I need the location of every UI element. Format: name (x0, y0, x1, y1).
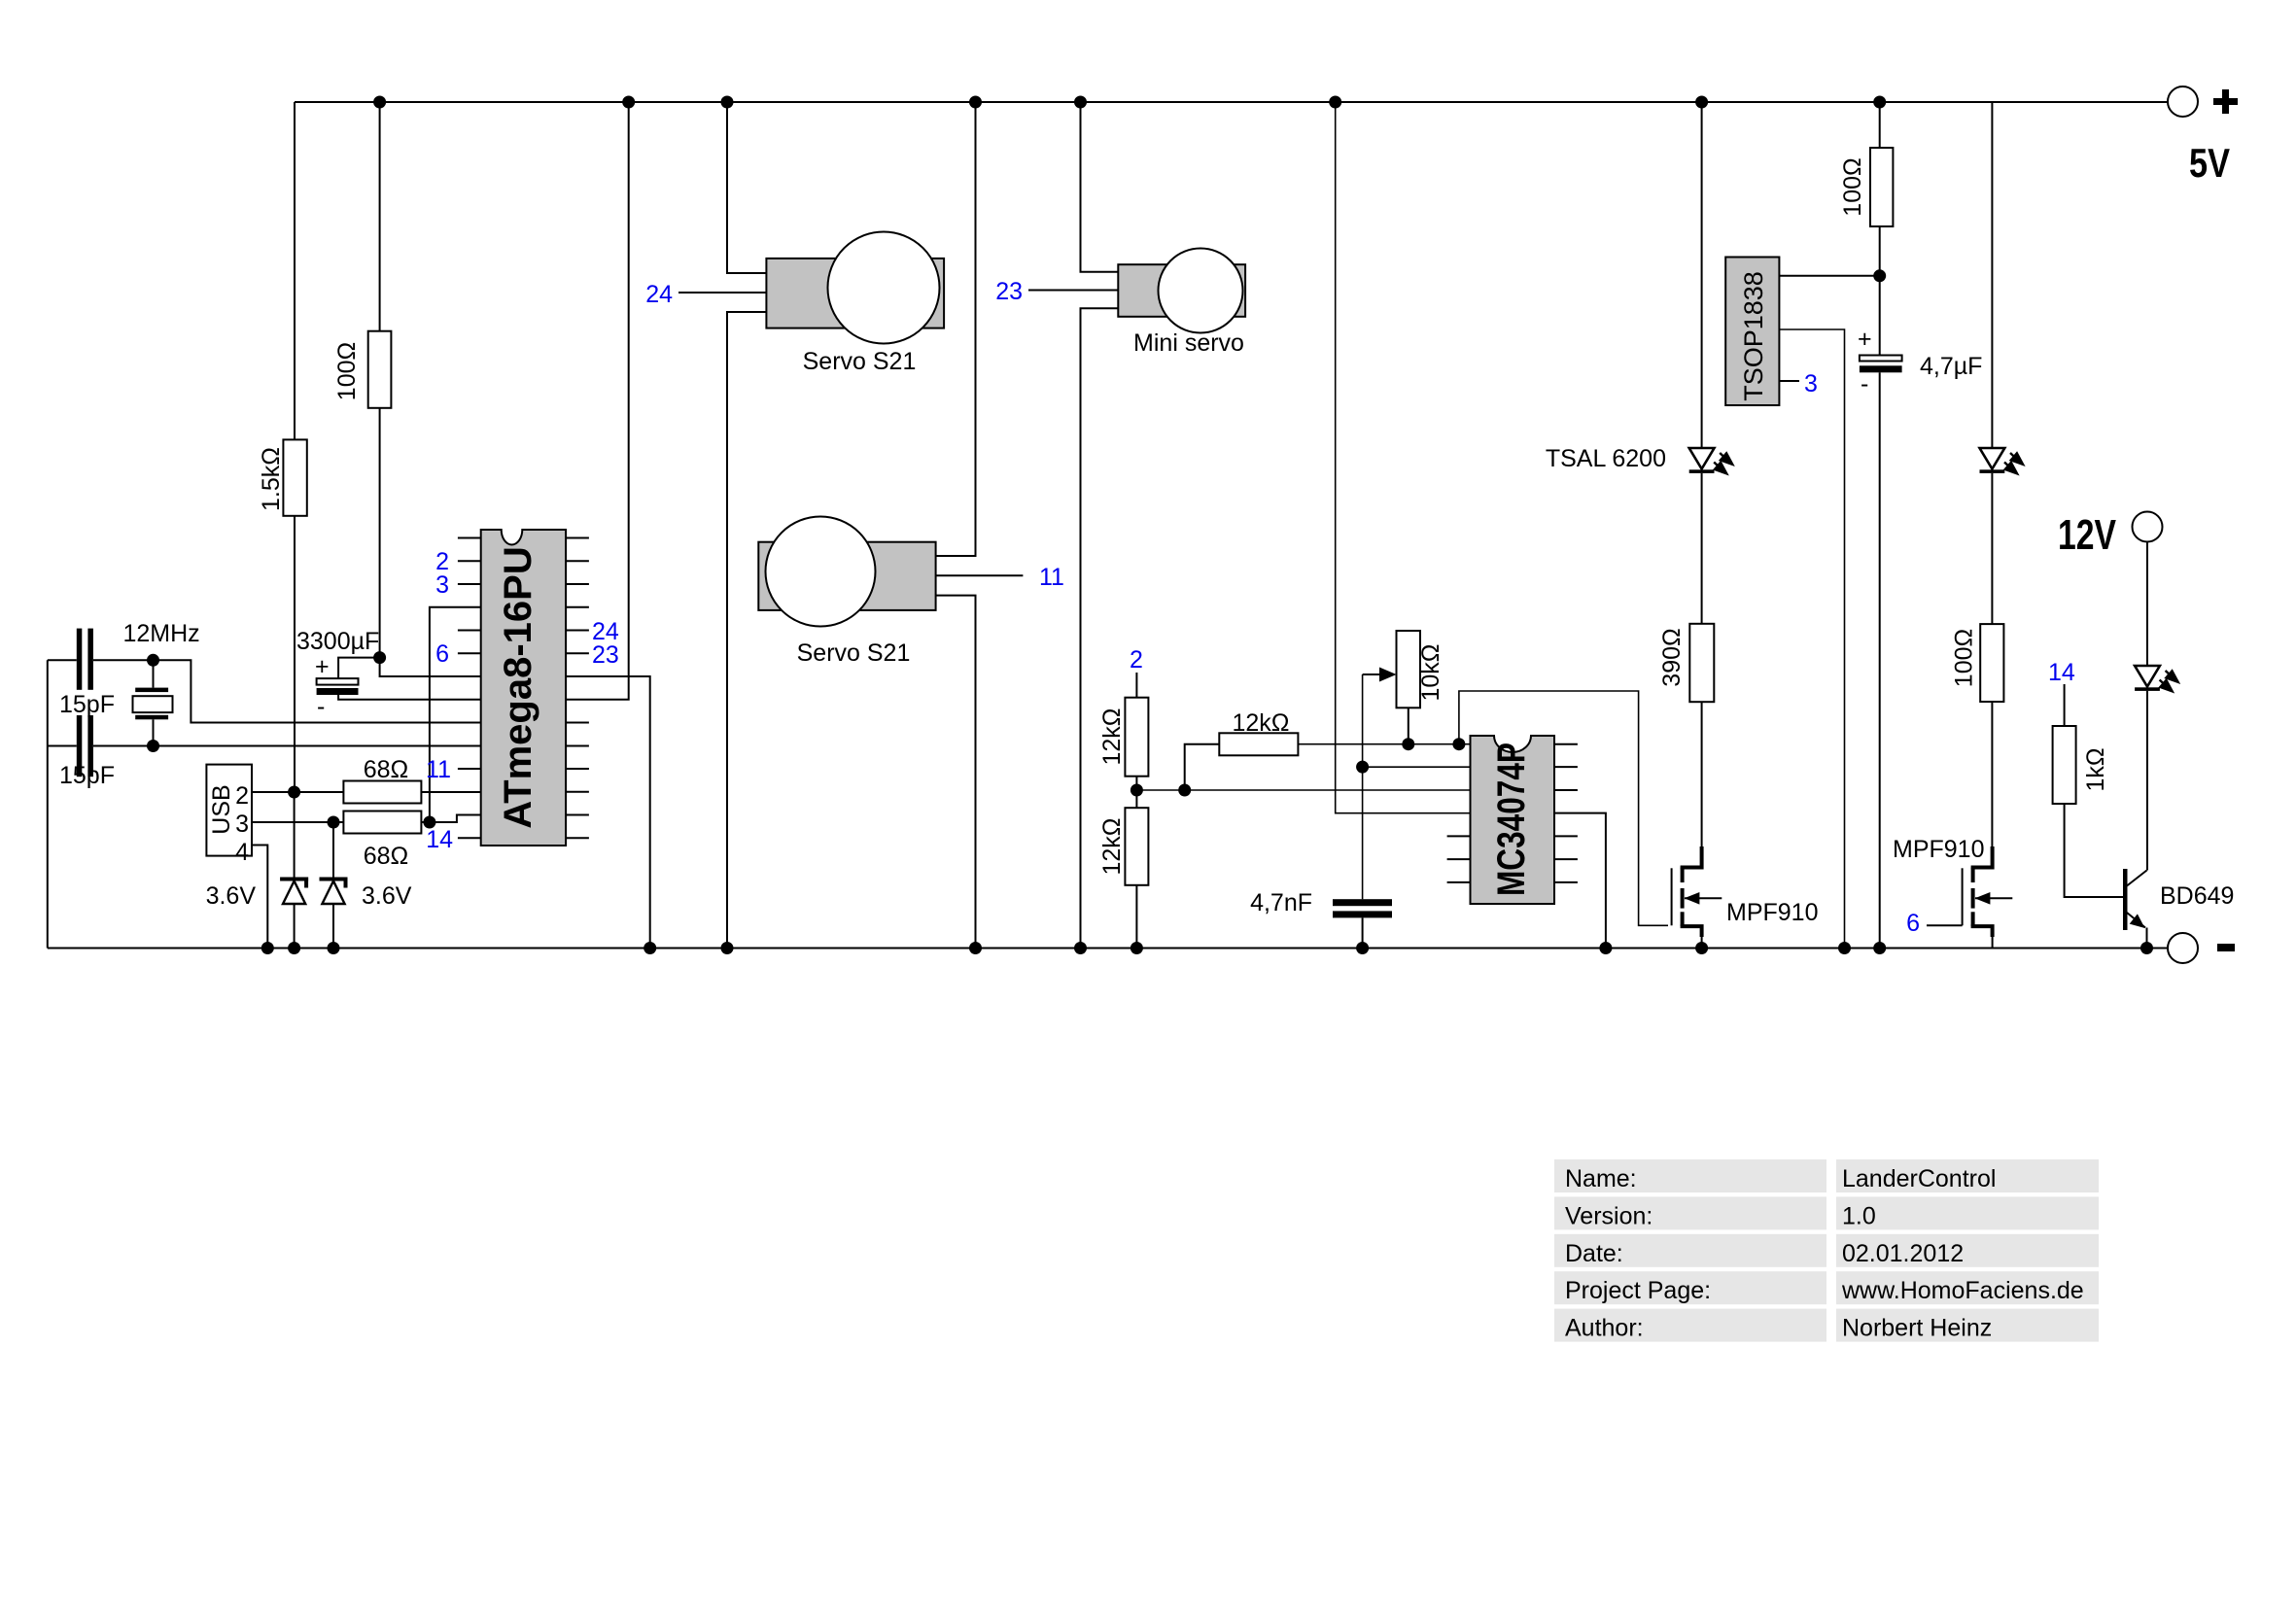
node crystal top (147, 654, 159, 667)
junction dot 5V rail x1934 (1873, 96, 1886, 109)
capacitor 15pF lower (59, 715, 115, 789)
junction dot 5V rail x1111 (1074, 96, 1087, 109)
IC U2 MC34074P (1471, 736, 1555, 904)
svg-text:Norbert Heinz: Norbert Heinz (1842, 1315, 1992, 1342)
node ground x1169 (1131, 942, 1143, 954)
ATmega right pin stubs (566, 538, 589, 839)
svg-text:3: 3 (435, 571, 449, 599)
wire 12k horizontal left lead (1185, 744, 1220, 790)
LED D2 (1980, 448, 2026, 476)
node zener2 ground (328, 942, 340, 954)
wire divider row to MC34074P pin3 (1136, 789, 1470, 791)
wire 68Ohm node riser to ATmega pin4 (430, 607, 481, 822)
resistor 1kOhm (2053, 726, 2076, 804)
wire 12k lower leads (1135, 790, 1137, 808)
svg-text:12kΩ: 12kΩ (1098, 708, 1126, 766)
node zener1 ground (288, 942, 300, 954)
svg-text:USB: USB (208, 784, 235, 834)
wire 1kOhm to BD649 base (2065, 804, 2123, 897)
resistor 68Ohm lower (343, 811, 421, 834)
wire 390Ohm to MOSFET1 drain (1701, 702, 1703, 848)
node pot bottom (1402, 738, 1414, 750)
node USB pin3 / zener2 (328, 816, 340, 829)
svg-text:11: 11 (426, 756, 451, 783)
node ground x2208 (2140, 942, 2153, 954)
ground rail wire (48, 948, 2168, 950)
wire pin 23 to mini servo (1028, 290, 1118, 292)
wire label14 to 1kOhm (2064, 684, 2066, 726)
svg-text:6: 6 (1906, 910, 1920, 937)
wire mini servo pin3 to ground (1081, 308, 1119, 948)
node ground x1897 (1838, 942, 1851, 954)
wire 5V to MC34074P pin4 (1336, 102, 1471, 813)
capacitor 15pF upper (59, 629, 115, 718)
5V terminal (2168, 86, 2238, 186)
svg-text:14: 14 (2048, 659, 2075, 686)
svg-text:MC34074P: MC34074P (1490, 742, 1533, 896)
svg-text:4: 4 (235, 839, 249, 866)
svg-text:TSOP1838: TSOP1838 (1739, 271, 1768, 401)
svg-text:3.6V: 3.6V (362, 882, 412, 910)
svg-text:1kΩ: 1kΩ (2082, 747, 2109, 791)
node ground x748 (721, 942, 734, 954)
wire servo S21a pin3 to ground (727, 312, 766, 949)
svg-text:12V: 12V (2058, 511, 2116, 559)
node USB pin2 / zener1 (288, 786, 300, 799)
node USB pin4 ground (261, 942, 274, 954)
wire 5V to mini servo pin1 (1081, 102, 1119, 272)
resistor 12kOhm lower (1125, 808, 1148, 885)
transistor Q3 BD649 (2123, 869, 2147, 949)
wire 3300uF minus to ATmega pin9 (338, 695, 481, 700)
svg-text:TSAL 6200: TSAL 6200 (1546, 445, 1666, 472)
junction dot 5V/100Ohm (373, 96, 386, 109)
svg-text:4,7nF: 4,7nF (1250, 889, 1312, 916)
node ground x1750 (1695, 942, 1708, 954)
svg-text:4,7µF: 4,7µF (1920, 353, 1982, 380)
resistor 100Ohm (left) lead wires (379, 102, 381, 331)
svg-text:MPF910: MPF910 (1893, 836, 1984, 863)
LED D3 (2135, 666, 2180, 694)
MC34074P right pin stubs (1554, 744, 1578, 882)
title table (1554, 1159, 2099, 1342)
node ground x1934 (1873, 942, 1886, 954)
svg-text:12kΩ: 12kΩ (1233, 709, 1290, 737)
svg-text:3300µF: 3300µF (296, 628, 379, 655)
junction dot 5V rail x748 (721, 96, 734, 109)
svg-text:100Ω: 100Ω (333, 342, 361, 400)
zener diode 3.6V right (320, 822, 412, 949)
servo S21b rotor (766, 517, 876, 627)
svg-text:02.01.2012: 02.01.2012 (1842, 1240, 1964, 1267)
capacitor C 3300uF (296, 628, 379, 720)
node ground x1652 (1599, 942, 1612, 954)
node ground x669 (644, 942, 656, 954)
resistor 1.5kOhm lead wires (294, 102, 296, 439)
resistor 68Ohm upper (343, 781, 421, 804)
node ground x1111 (1074, 942, 1087, 954)
svg-text:Servo S21: Servo S21 (797, 639, 911, 667)
capacitor 4.7nF (1250, 889, 1392, 949)
wire label2 to 12k upper (1135, 673, 1137, 698)
node ground x1402 (1356, 942, 1369, 954)
wire gate Q2 to pin6 (1927, 924, 1963, 926)
node TSOP/cap junction (1873, 269, 1886, 282)
mini servo rotor (1159, 249, 1243, 333)
svg-text:11: 11 (1039, 564, 1064, 591)
svg-text:10kΩ: 10kΩ (1417, 644, 1444, 702)
wire 12V to LED3 (2146, 542, 2148, 666)
wire servo S21b pin2 to label 11 (936, 574, 1024, 576)
svg-text:ATmega8-16PU: ATmega8-16PU (497, 546, 539, 828)
wire 5V to ATmega pin20 (566, 102, 629, 700)
node crystal bottom (147, 740, 159, 752)
wire 5V branch to LED2 (1991, 102, 1993, 447)
wire MC pin11 to ground (1554, 813, 1606, 949)
junction dot 5V rail x1003 (969, 96, 982, 109)
svg-text:Author:: Author: (1565, 1315, 1644, 1342)
wire LED2 to 100Ohm right (1991, 473, 1993, 624)
wire 68Ohm upper to ATmega pin12 (421, 791, 480, 793)
resistor 100Ohm (left) (368, 331, 392, 408)
svg-text:www.HomoFaciens.de: www.HomoFaciens.de (1841, 1277, 2084, 1304)
svg-text:6: 6 (435, 640, 449, 668)
wire 12k horizontal right lead to MC pin1 row (1298, 743, 1470, 745)
svg-text:68Ω: 68Ω (364, 843, 409, 870)
transistor Q1 MPF910 (1672, 846, 1722, 949)
wire servo S21b pin3 to ground (936, 596, 976, 949)
wire 68Ohm lower jog to ATmega pin13 (421, 815, 480, 823)
svg-text:+: + (1858, 326, 1872, 353)
node 68Ohm lower right (423, 816, 435, 829)
svg-text:2: 2 (235, 782, 249, 810)
potentiometer 10kOhm (1363, 631, 1444, 744)
LED TSAL 6200 (1689, 448, 1735, 476)
resistor 390Ohm (1689, 624, 1714, 702)
svg-text:LanderControl: LanderControl (1842, 1165, 1996, 1192)
svg-text:-: - (317, 693, 325, 720)
svg-text:14: 14 (426, 826, 453, 853)
wire 100Ohm to TSOP node (1879, 226, 1881, 276)
svg-text:Project Page:: Project Page: (1565, 1277, 1711, 1304)
MC34074P left pin stubs (1447, 836, 1471, 882)
svg-text:1.5kΩ: 1.5kΩ (258, 447, 285, 511)
node wiper to MC pin2 (1356, 761, 1369, 774)
5V rail wire (295, 101, 2168, 103)
svg-text:100Ω: 100Ω (1839, 157, 1866, 216)
svg-text:15pF: 15pF (59, 762, 115, 789)
node 100Ohm/3300uF junction (373, 651, 386, 664)
ATmega left pin stubs (458, 538, 481, 839)
node divider mid left (1131, 784, 1143, 797)
wire 5V to servo S21b pin1 (936, 102, 976, 556)
wire USB pin3 row (252, 821, 343, 823)
junction dot 5V rail x1374 (1329, 96, 1341, 109)
svg-text:Version:: Version: (1565, 1202, 1652, 1229)
wire TSOP pin2 to ground (1779, 329, 1844, 949)
svg-text:3.6V: 3.6V (206, 882, 257, 910)
wire ATmega pin19 to ground (566, 676, 650, 949)
svg-text:15pF: 15pF (59, 691, 115, 718)
wire LED to 390Ohm (1701, 473, 1703, 624)
zener diode 3.6V left (206, 792, 309, 949)
svg-text:Name:: Name: (1565, 1165, 1637, 1192)
junction dot 5V rail x1750 (1695, 96, 1708, 109)
transistor Q2 MPF910 (1963, 846, 2013, 949)
node divider mid right (1178, 784, 1191, 797)
wire USB pin4 to ground (252, 846, 267, 949)
wire 100Ohm to MOSFET2 drain (1991, 702, 1993, 848)
wire TSOP pin3 stub (1779, 380, 1799, 382)
wire USB pin2 row (252, 791, 343, 793)
wire feedback riser to MOSFET1 gate (1459, 691, 1668, 925)
servo S21b body (758, 542, 935, 610)
svg-text:100Ω: 100Ω (1951, 629, 1978, 687)
crystal 12MHz (133, 660, 173, 745)
wire LED3 to BD649 collector (2146, 691, 2148, 871)
servo S21a rotor (828, 232, 940, 344)
servo S21a body (766, 259, 944, 328)
wire TSOP pin1 to node (1779, 275, 1879, 277)
svg-text:390Ω: 390Ω (1658, 628, 1686, 686)
IC TSOP1838 (1725, 258, 1779, 406)
svg-text:23: 23 (592, 641, 619, 669)
svg-text:Date:: Date: (1565, 1240, 1623, 1267)
svg-text:5V: 5V (2189, 140, 2230, 186)
wire 12k upper to node (1135, 777, 1137, 790)
resistor 100Ohm (TSOP) (1870, 148, 1893, 226)
svg-text:68Ω: 68Ω (364, 756, 409, 783)
wire pot wiper riser to 4.7nF (1362, 674, 1364, 899)
svg-text:3: 3 (235, 811, 249, 838)
wire 5V to LED TSAL6200 (1701, 102, 1703, 447)
svg-text:24: 24 (645, 281, 673, 308)
minus terminal (2168, 933, 2235, 963)
svg-text:2: 2 (1130, 646, 1143, 673)
resistor 100Ohm (right) (1980, 624, 2003, 702)
resistor 12kOhm horizontal (1219, 733, 1298, 755)
resistor 12kOhm upper (1125, 698, 1148, 777)
capacitor C 4.7uF (1858, 276, 1982, 949)
wire crystal bottom row (48, 745, 77, 747)
12V terminal (2133, 512, 2163, 542)
svg-text:MPF910: MPF910 (1726, 899, 1818, 926)
resistor 1.5kOhm (283, 439, 306, 515)
USB connector (206, 765, 252, 866)
svg-text:12MHz: 12MHz (123, 620, 200, 647)
wire 5V to servo S21a pin1 (727, 102, 766, 273)
node MC pin1 feedback (1452, 738, 1465, 750)
IC U1 ATmega8-16PU (481, 530, 566, 846)
svg-text:-: - (1861, 370, 1868, 397)
svg-text:12kΩ: 12kΩ (1098, 818, 1126, 876)
wire left ground riser (47, 660, 49, 948)
svg-text:Servo S21: Servo S21 (803, 348, 917, 375)
svg-text:BD649: BD649 (2160, 882, 2234, 910)
wire node to MC34074P pin2 (1363, 766, 1471, 768)
svg-text:1.0: 1.0 (1842, 1202, 1876, 1229)
mini servo body (1118, 264, 1245, 317)
svg-text:23: 23 (995, 278, 1023, 305)
svg-text:Mini servo: Mini servo (1133, 329, 1244, 357)
wire 5V to 100Ohm (TSOP) (1879, 102, 1881, 148)
svg-text:3: 3 (1804, 370, 1818, 397)
wire pin 24 to servo S21a (678, 292, 766, 294)
capacitor C 3300uF plus wire (338, 658, 380, 679)
node ground x1003 (969, 942, 982, 954)
wire 3300uF node to ATmega pin7 (380, 658, 481, 676)
junction dot 5V rail x647 (622, 96, 635, 109)
wire crystal top row (48, 659, 77, 661)
svg-text:+: + (315, 653, 330, 680)
